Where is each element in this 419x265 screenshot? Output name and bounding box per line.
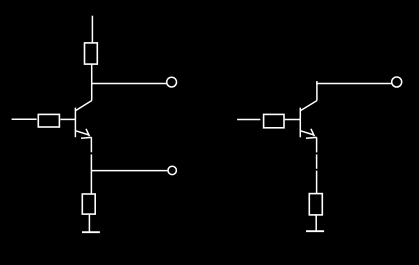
wire R1 bottom to collector of Q1 — [91, 64, 93, 100]
ground (left stage) — [82, 231, 100, 233]
wire R3 bottom to ground — [88, 214, 90, 231]
resistor R1 (collector load, left stage) — [85, 43, 98, 64]
resistor R5 (emitter, right stage) — [309, 194, 322, 215]
ground (right stage) — [306, 230, 324, 232]
wire emitter of Q2 down (segment 3) — [316, 171, 318, 194]
terminal circle OUT3 — [392, 77, 402, 87]
resistor R3 (emitter, left stage) — [82, 194, 95, 214]
wire emitter of Q1 down (upper segment) — [90, 137, 92, 152]
wire emitter of Q1 down (lower segment through node) — [90, 154, 92, 194]
wire emitter of Q2 down (segment 2) — [316, 154, 318, 168]
terminal circle OUT1 — [167, 77, 177, 87]
wire input (left stage base) — [12, 118, 37, 120]
wire R5 bottom to ground — [315, 215, 317, 231]
resistor R2 (base, left stage) — [38, 114, 59, 127]
wire R2 to base of Q1 — [60, 118, 75, 120]
wire R4 to base of Q2 — [285, 119, 300, 121]
resistor R4 (base, right stage) — [264, 114, 284, 127]
transistor Q1 (NPN, left stage) — [75, 101, 91, 139]
wire emitter of Q2 down (segment 1) — [316, 137, 318, 152]
terminal circle OUT2 — [168, 166, 176, 174]
transistor Q2 (NPN, right stage) — [300, 101, 317, 139]
wire corner to output terminal (node OUT3) — [316, 83, 392, 85]
wire input (right stage base) — [237, 119, 260, 121]
wire emitter node to output terminal (node OUT2) — [91, 170, 168, 172]
wire collector of Q2 up to corner — [316, 81, 318, 101]
wire VCC supply (left stage) — [91, 16, 93, 43]
wire collector node to output terminal (node OUT1) — [91, 83, 167, 85]
